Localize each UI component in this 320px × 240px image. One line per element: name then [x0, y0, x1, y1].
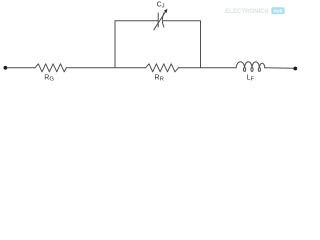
resistor RG	[35, 64, 66, 72]
svg-text:RG: RG	[44, 74, 54, 82]
capacitor Cj left plate	[157, 13, 159, 27]
variable capacitor arrow	[154, 12, 166, 30]
node output terminal right dot	[293, 67, 297, 71]
svg-text:ELECTRONICS: ELECTRONICS	[225, 8, 269, 15]
wire left riser of parallel section	[115, 21, 158, 68]
svg-text:CJ: CJ	[157, 1, 165, 9]
capacitor Cj right curved plate	[162, 13, 164, 27]
inductor LF	[236, 62, 265, 68]
node input terminal left dot	[4, 66, 8, 70]
wire RR to inductor (through right junction)	[178, 67, 236, 69]
watermark HUB badge	[271, 7, 284, 14]
wire RG to RR (through left junction)	[66, 67, 145, 69]
wire left dot to RG	[7, 67, 35, 69]
wire inductor to right dot	[265, 67, 294, 70]
svg-text:RR: RR	[155, 74, 164, 82]
svg-text:LF: LF	[247, 74, 255, 82]
wire top right segment and right riser	[163, 21, 200, 68]
resistor RR	[146, 64, 179, 72]
svg-text:HUB: HUB	[273, 9, 283, 15]
